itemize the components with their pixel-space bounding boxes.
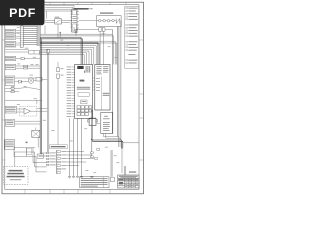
junction box X1 bbox=[26, 148, 31, 154]
bottom connector label TELEHANDLER 4WD bbox=[50, 145, 68, 149]
ground stub with arrow on rail bbox=[59, 32, 61, 38]
switch panel S3 label box bbox=[5, 41, 16, 47]
wires S1-S3 to J1 bbox=[16, 31, 21, 45]
alternator G2 bbox=[103, 19, 106, 22]
ignition module U1 bbox=[72, 9, 77, 32]
GPS header text rows bbox=[96, 66, 108, 74]
wire K1 to U1 bbox=[62, 21, 72, 23]
wire drops ECM to bottom connector bbox=[70, 119, 82, 177]
wire stair to tag row 2 bbox=[35, 152, 47, 167]
wire number tag boxes column bbox=[37, 26, 40, 46]
joystick label box bbox=[5, 76, 15, 85]
fuse F7 bbox=[24, 65, 28, 67]
service brake label box bbox=[4, 140, 15, 150]
wires joystick rows bbox=[15, 78, 48, 82]
alternator G3 bbox=[107, 19, 110, 22]
stamp box bbox=[110, 178, 115, 182]
ECM description text lines bbox=[77, 87, 90, 90]
wires J2 to drops bbox=[66, 152, 96, 166]
heavy return wire bend bbox=[91, 134, 123, 149]
wires J1 to wire-number column bbox=[23, 27, 37, 45]
scattered wire labels bbox=[17, 27, 120, 173]
fuse pair F6 bbox=[29, 50, 40, 54]
wire pair through M1 bbox=[91, 110, 92, 158]
solenoid block label box bbox=[5, 64, 16, 69]
wire tag rows above J2 bbox=[47, 152, 56, 166]
beacon lamp E1 bbox=[32, 128, 40, 138]
wire T stub on mid rail bbox=[36, 100, 38, 104]
wire row y49-53 bbox=[5, 50, 29, 53]
resistor R4 bbox=[5, 91, 19, 93]
GPS text bbox=[103, 93, 110, 96]
sheet title text TELEHANDLER TYPE 1 bbox=[73, 8, 88, 10]
wire U1 down bbox=[74, 27, 76, 36]
switch panel S1 label box bbox=[5, 29, 16, 34]
svg-text:PDF: PDF bbox=[9, 6, 36, 20]
alternator G4 bbox=[112, 19, 115, 22]
wire tag T4 bbox=[97, 149, 100, 151]
heavy supply rail B+ bbox=[40, 38, 82, 154]
op-amp U2 bbox=[24, 108, 31, 114]
wire bend to right border bbox=[123, 142, 139, 144]
alternator G1 bbox=[99, 19, 102, 22]
wire lamp drop bbox=[37, 137, 39, 147]
title block table bbox=[118, 175, 139, 188]
wire tag T3 bbox=[94, 158, 97, 160]
flasher unit M1 bbox=[88, 118, 98, 125]
border zone ticks bbox=[2, 2, 144, 194]
wire horizontal mid rail bbox=[5, 99, 42, 101]
U1 pin stubs bbox=[70, 12, 79, 29]
wire stair to tag row 1 bbox=[33, 148, 47, 163]
fuse labels bbox=[61, 68, 64, 75]
manufacturer note dashed box bbox=[4, 167, 28, 185]
GPS module divider bbox=[100, 77, 102, 111]
feeder tag box bbox=[37, 154, 44, 158]
contact grid table bbox=[14, 148, 36, 157]
svg-text:TELEHANDLER TYPE: TELEHANDLER TYPE bbox=[74, 8, 94, 11]
fuse F5 bbox=[99, 28, 105, 32]
notes box N1 bbox=[80, 177, 109, 188]
alternator group enclosure bbox=[97, 16, 122, 27]
legend net label rows bbox=[126, 8, 138, 64]
wire F5 right bbox=[105, 28, 112, 30]
long vertical feeder wires bbox=[47, 49, 49, 152]
pressure switch B1 bbox=[21, 57, 24, 59]
wire loop arc bbox=[19, 88, 41, 90]
feeder inline connector bbox=[47, 50, 50, 54]
wire top rail to U1 bbox=[45, 11, 72, 19]
resistor R2 bbox=[36, 78, 42, 81]
wire F5 drops bbox=[100, 31, 104, 64]
wires work lights bbox=[17, 109, 48, 113]
drawing number PT-0463 bbox=[129, 171, 136, 172]
wire transmission row bbox=[16, 58, 41, 60]
ECM connector footprint bbox=[77, 66, 83, 69]
wire badge area to K1 bbox=[45, 21, 55, 23]
J2 pin rows bbox=[57, 151, 66, 174]
wire linking alternators bbox=[97, 20, 116, 22]
wire relay K1 down to rail bbox=[57, 24, 59, 38]
amplifier U2 dashed enclosure bbox=[20, 107, 37, 116]
fuse F8 bbox=[24, 67, 28, 69]
transistor Q1 bbox=[28, 78, 34, 84]
ECM relay grid bbox=[77, 106, 92, 116]
ECM fuse text columns bbox=[84, 66, 90, 73]
wire drop to notes bbox=[111, 150, 126, 177]
GPS pin stubs bbox=[93, 78, 95, 90]
wire tag T2 bbox=[90, 156, 93, 158]
heavy rail B bbox=[40, 43, 99, 65]
diode D1 below U1 bbox=[75, 30, 78, 33]
wire stair to tag row 3 bbox=[36, 157, 47, 172]
connector J1 column bbox=[20, 26, 23, 47]
diode D2 in alternator box bbox=[116, 19, 120, 24]
ECM module A1 body bbox=[75, 65, 93, 119]
bottom connector J2 spine bbox=[56, 150, 58, 174]
fuse F1 bbox=[57, 62, 60, 72]
lamp module A3 body bbox=[101, 112, 113, 133]
wire alternator drops bbox=[112, 21, 121, 140]
A3 text rows bbox=[103, 116, 110, 131]
wires top feed trio bbox=[45, 5, 74, 9]
switch S4 label bbox=[26, 142, 28, 143]
wire stub below badge bbox=[44, 25, 46, 34]
right legend list box bbox=[125, 6, 139, 68]
wire U1 to alternator box bbox=[79, 20, 97, 22]
PDF badge bbox=[0, 0, 45, 25]
resistor labels R5 R6 bbox=[31, 63, 39, 66]
work lights label box bbox=[5, 106, 17, 113]
ground symbols under drops bbox=[68, 176, 94, 178]
fuse F2 bbox=[57, 74, 60, 145]
thin return drops bbox=[121, 149, 122, 174]
GPS module A2 body bbox=[95, 65, 110, 111]
wire tag T1 bbox=[90, 152, 93, 154]
ECM left pin labels bbox=[67, 67, 72, 117]
wire into dashed box bbox=[14, 152, 16, 167]
resistor R3 bbox=[5, 88, 19, 90]
switch panel S2 label box bbox=[5, 35, 16, 39]
wire bus bends into ECM top bbox=[39, 46, 96, 65]
transmission block label box bbox=[5, 56, 16, 60]
ECM sub box bbox=[78, 93, 89, 97]
ECM left pin stubs bbox=[72, 67, 75, 116]
svg-text:CDM: CDM bbox=[80, 81, 85, 83]
ECM LED box bbox=[81, 100, 87, 104]
wire F5 left bbox=[77, 28, 99, 30]
wires feeders to tag rows bbox=[41, 153, 47, 156]
alternator group label bbox=[100, 13, 113, 14]
wires battery bbox=[15, 121, 41, 124]
resistor value labels bbox=[11, 86, 15, 90]
ECM name text CDM bbox=[80, 80, 85, 82]
second drop to notes bbox=[111, 150, 113, 177]
diode D3 bbox=[19, 80, 22, 83]
battery label box bbox=[6, 119, 15, 126]
wire bus from tag column to right drop bbox=[40, 34, 116, 64]
wires solenoid row bbox=[16, 66, 41, 68]
sheet outer border frame bbox=[2, 2, 144, 194]
relay K1 bbox=[55, 17, 62, 24]
GPS pin rows bbox=[96, 78, 100, 91]
